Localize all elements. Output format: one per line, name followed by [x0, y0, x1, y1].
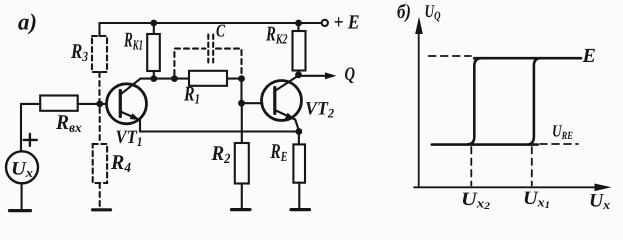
transistor VT2	[262, 81, 302, 121]
resistor RE	[298, 132, 300, 145]
resistor R4 (dashed)	[99, 108, 101, 144]
wire input branch down	[20, 104, 22, 152]
terminal +E	[322, 20, 328, 26]
resistor RК1	[153, 23, 155, 34]
svg-text:б): б)	[397, 1, 411, 23]
wire node down to base node VT2	[240, 79, 242, 104]
ground under RE	[291, 208, 310, 211]
svg-text:VT2: VT2	[305, 99, 334, 121]
node R1 right / base VT2 branch	[238, 75, 245, 82]
node junction top of RК1	[150, 20, 157, 27]
node junction top of RК2	[295, 20, 302, 27]
svg-text:RE: RE	[270, 139, 288, 165]
capacitor C (dashed branch)	[174, 49, 205, 75]
svg-text:а): а)	[18, 10, 37, 35]
wire base VT2	[242, 102, 263, 104]
dashed level URE	[540, 143, 578, 145]
ground under R2	[232, 208, 251, 211]
X axis	[414, 186, 597, 188]
resistor RК2	[297, 23, 299, 31]
hysteresis curve upper branch	[474, 57, 581, 60]
Y axis	[418, 30, 420, 188]
resistor R3 (dashed)	[98, 23, 100, 36]
node capacitor left tap	[171, 75, 178, 82]
node collector VT2 / output	[295, 71, 302, 78]
transistor VT1	[107, 84, 147, 124]
node base VT2	[238, 100, 245, 107]
svg-text:C: C	[216, 21, 226, 41]
ground under Ux	[10, 209, 31, 212]
resistor Rвх	[40, 96, 77, 111]
wire collector VT1 to R1	[141, 78, 190, 80]
node base VT1 (divider tap)	[96, 101, 103, 108]
wire common emitter rail	[140, 130, 299, 132]
svg-text:Ux2: Ux2	[461, 189, 490, 212]
hysteresis curve right transition Ux1	[528, 58, 541, 144]
source Ux plus sign	[24, 139, 37, 141]
svg-text:R4: R4	[110, 150, 131, 176]
svg-text:VT1: VT1	[116, 127, 143, 149]
svg-text:E: E	[582, 45, 596, 67]
node emitter VT2 / RE top	[296, 128, 303, 135]
resistor R2	[241, 103, 243, 143]
hysteresis curve left transition Ux2	[468, 58, 481, 144]
wire top supply rail	[100, 22, 322, 24]
svg-text:Rвх: Rвх	[55, 110, 81, 136]
svg-text:Ux1: Ux1	[523, 188, 550, 211]
svg-text:Ux: Ux	[11, 159, 34, 181]
svg-text:URE: URE	[552, 122, 573, 143]
dashed threshold Ux1	[531, 147, 533, 186]
resistor R1	[189, 71, 227, 86]
dashed level E	[429, 55, 471, 57]
svg-text:UQ: UQ	[425, 1, 441, 23]
hysteresis curve lower branch	[432, 143, 538, 146]
node collector VT1 / RК1 bottom	[150, 75, 157, 82]
svg-text:+ E: + E	[334, 12, 360, 34]
svg-text:Ux: Ux	[589, 191, 611, 213]
svg-text:R3: R3	[70, 39, 88, 65]
output Q arrow	[299, 75, 327, 77]
svg-text:Q: Q	[345, 64, 356, 85]
svg-text:R2: R2	[211, 141, 231, 167]
dashed threshold Ux2	[470, 147, 472, 186]
svg-text:RК2: RК2	[265, 22, 287, 48]
ground under R4	[93, 208, 111, 211]
source Ux	[6, 151, 38, 183]
svg-text:RК1: RК1	[123, 28, 143, 54]
